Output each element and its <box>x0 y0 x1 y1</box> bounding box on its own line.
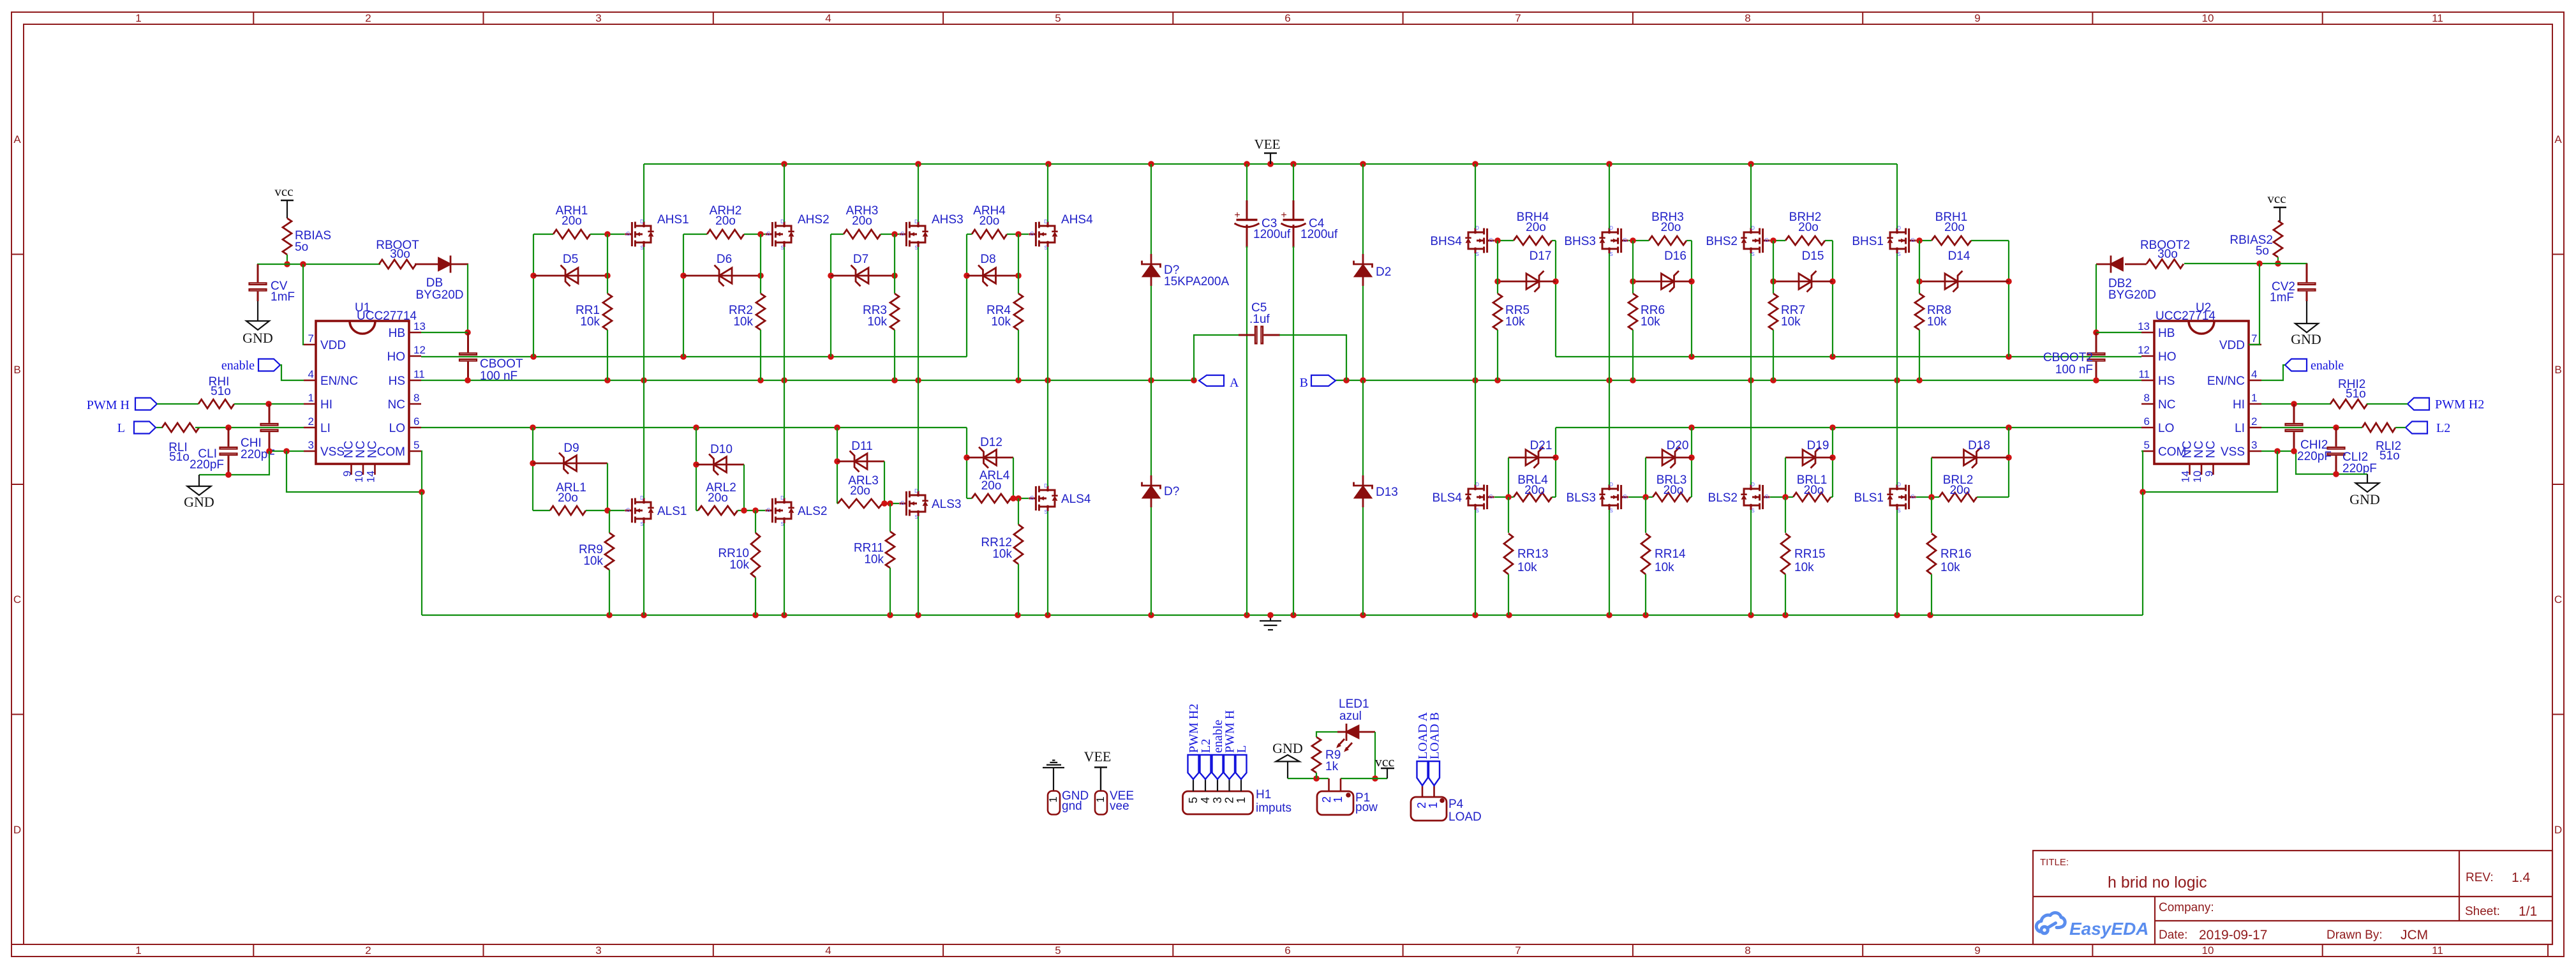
wire <box>966 234 967 357</box>
svg-text:20o: 20o <box>981 479 1002 493</box>
junction bottom rail <box>1290 612 1297 618</box>
junction D19 right <box>1829 454 1836 461</box>
U2 pin 8 NC <box>2141 392 2175 412</box>
svg-text:UCC27714: UCC27714 <box>2155 309 2215 323</box>
wire <box>258 264 287 277</box>
junction HB node <box>465 329 471 336</box>
svg-text:D20: D20 <box>1667 439 1689 452</box>
svg-text:pow: pow <box>1355 801 1378 814</box>
svg-text:LO: LO <box>2158 422 2174 435</box>
svg-text:NC: NC <box>2158 398 2175 412</box>
wire <box>683 234 684 357</box>
svg-text:D12: D12 <box>980 436 1002 449</box>
svg-text:14: 14 <box>2180 471 2192 483</box>
svg-text:10k: 10k <box>1940 561 1960 574</box>
junction COM drop <box>419 489 425 495</box>
junction D14 left <box>1916 278 1923 285</box>
diode D? (bottom TVS) <box>1142 380 1180 615</box>
resistor BRH1 20o <box>1932 211 2009 245</box>
transistor BLS1 (N-MOSFET) <box>1854 482 1916 514</box>
resistor BRL1 20o <box>1793 473 1833 502</box>
svg-text:30o: 30o <box>2157 248 2178 261</box>
H1 pin 2 port PWM H <box>1223 710 1237 803</box>
svg-text:7: 7 <box>308 332 314 345</box>
junction node B <box>1343 377 1350 383</box>
wire <box>590 234 625 235</box>
junction HS line <box>915 377 921 383</box>
net flag PWM H <box>87 398 157 413</box>
junction COM2 drop <box>2140 489 2146 495</box>
diode D19 (zener) <box>1785 439 1833 468</box>
junction <box>2275 260 2281 267</box>
junction HS2 line <box>1770 377 1776 383</box>
junction D18 right <box>2006 454 2012 461</box>
svg-text:5: 5 <box>2144 439 2150 451</box>
svg-text:CBOOT: CBOOT <box>480 357 523 371</box>
wire <box>1508 497 1509 533</box>
wire <box>607 234 608 294</box>
svg-text:51o: 51o <box>2346 387 2366 401</box>
U2 pin 10 NC <box>2191 441 2206 483</box>
wire <box>1916 240 1932 241</box>
wire RR15 to rail <box>1785 574 1786 615</box>
svg-text:LOAD B: LOAD B <box>1428 712 1442 759</box>
wire HB2 <box>2096 332 2141 333</box>
wire <box>1508 458 1509 497</box>
junction <box>604 507 611 514</box>
svg-text:7: 7 <box>1515 12 1521 24</box>
svg-text:4: 4 <box>825 12 831 24</box>
wire <box>755 510 756 533</box>
junction bottom rail <box>1148 612 1154 618</box>
ground GND below CLI2 <box>2349 474 2380 507</box>
svg-text:RR13: RR13 <box>1517 547 1549 561</box>
svg-text:S: S <box>914 245 918 251</box>
wire COM2 to rail <box>2142 492 2143 615</box>
capacitor CV 1mF <box>249 264 295 304</box>
svg-text:+: + <box>1281 210 1286 221</box>
svg-text:10k: 10k <box>867 315 887 329</box>
transistor BHS3 (N-MOSFET) <box>1564 225 1628 257</box>
junction D11 left <box>834 458 840 465</box>
wire <box>1691 241 1692 357</box>
svg-text:VSS: VSS <box>320 445 345 459</box>
svg-text:12: 12 <box>413 344 426 356</box>
junction HS line <box>641 377 647 383</box>
svg-text:G: G <box>1489 237 1493 243</box>
port LOAD A <box>1416 712 1430 786</box>
svg-text:D: D <box>2554 824 2562 836</box>
junction D20 right <box>1688 454 1695 461</box>
svg-text:L: L <box>1235 745 1249 753</box>
resistor RR7 10k <box>1769 294 1805 330</box>
junction CLI2 bottom <box>2333 471 2339 477</box>
transistor ALS1 (N-MOSFET) <box>625 495 687 527</box>
resistor RR15 10k <box>1781 533 1826 574</box>
svg-text:1.4: 1.4 <box>2512 870 2531 885</box>
wire LO2 line <box>1556 427 2141 428</box>
ground GND below CV <box>242 301 273 346</box>
wire HS2 line <box>1336 380 2141 381</box>
U2 pin 1 HI <box>2233 392 2261 412</box>
wire <box>696 510 698 511</box>
transistor ALS2 (N-MOSFET) <box>765 495 827 527</box>
svg-text:12: 12 <box>2138 344 2150 356</box>
svg-text:10: 10 <box>2191 471 2203 483</box>
svg-text:6: 6 <box>1284 944 1290 957</box>
wire R9 to LED1 <box>1316 732 1337 737</box>
svg-text:1: 1 <box>1427 802 1440 808</box>
svg-text:S: S <box>780 245 784 251</box>
resistor ARH2 20o <box>683 204 744 239</box>
svg-text:8: 8 <box>1745 944 1750 957</box>
junction HS2 line <box>1748 377 1754 383</box>
diode DB BYG20D <box>415 256 468 302</box>
svg-text:HI: HI <box>320 398 332 412</box>
wire <box>1971 240 2009 241</box>
svg-text:imputs: imputs <box>1256 801 1292 815</box>
wire <box>837 503 838 504</box>
wire <box>1475 164 1476 228</box>
transistor BLS3 (N-MOSFET) <box>1567 482 1628 514</box>
svg-text:A: A <box>2554 133 2562 145</box>
wire RR2 to HS <box>760 330 761 380</box>
svg-text:LI: LI <box>2235 422 2245 435</box>
wire <box>1896 380 1898 485</box>
svg-text:vee: vee <box>1110 800 1129 813</box>
svg-text:9: 9 <box>1974 12 1980 24</box>
svg-text:20o: 20o <box>1804 484 1824 497</box>
svg-text:G: G <box>626 231 630 237</box>
wire <box>784 164 785 222</box>
junction D8 left <box>964 272 970 279</box>
svg-text:3: 3 <box>2251 439 2257 451</box>
junction node A <box>1191 377 1197 383</box>
wire <box>1632 241 1634 294</box>
junction <box>284 261 290 267</box>
svg-text:10k: 10k <box>1655 561 1674 574</box>
svg-text:20o: 20o <box>1524 484 1545 497</box>
wire <box>918 164 919 222</box>
svg-text:1/1: 1/1 <box>2519 904 2537 919</box>
svg-text:1mF: 1mF <box>271 290 295 304</box>
svg-text:vcc: vcc <box>2267 191 2286 206</box>
transistor AHS4 (N-MOSFET) <box>1029 213 1093 251</box>
wire <box>830 234 831 357</box>
svg-text:1200uf: 1200uf <box>1253 228 1291 241</box>
wire <box>2184 264 2307 277</box>
svg-text:4: 4 <box>825 944 831 957</box>
wire to LI <box>195 427 304 428</box>
U2 pin 14 NC <box>2180 441 2194 483</box>
H1 pin 1 port L <box>1235 745 1249 803</box>
resistor RR9 10k <box>579 533 614 570</box>
wire bottom rail <box>422 614 2143 616</box>
svg-text:D5: D5 <box>563 253 578 266</box>
svg-text:9: 9 <box>1974 944 1980 957</box>
svg-text:6: 6 <box>2144 415 2150 428</box>
svg-text:enable: enable <box>2311 359 2344 373</box>
junction D17 right <box>1552 278 1559 285</box>
svg-text:HB: HB <box>389 327 405 340</box>
wire HI2 <box>2261 403 2331 405</box>
junction bottom rail <box>606 612 613 618</box>
junction D5 right <box>604 272 611 279</box>
wire <box>1475 380 1476 485</box>
U1 pin 9 NC <box>341 441 356 477</box>
svg-text:D19: D19 <box>1807 439 1829 452</box>
svg-text:10k: 10k <box>1927 315 1947 329</box>
wire <box>1047 247 1048 380</box>
wire VSS2-COM loop <box>2141 451 2277 492</box>
wire VEE rail <box>644 163 1897 165</box>
svg-text:5o: 5o <box>295 241 308 254</box>
wire <box>1977 496 2009 498</box>
resistor ARL4 20o <box>967 469 1011 503</box>
junction LO2 line <box>1829 424 1836 431</box>
net flag PWM H2 <box>2408 398 2484 412</box>
junction bottom rail <box>1472 612 1478 618</box>
wire <box>890 503 891 532</box>
wire RR1 to HS <box>607 330 608 380</box>
junction bottom rail <box>1506 612 1512 618</box>
junction HS line <box>781 377 787 383</box>
junction <box>881 500 888 507</box>
U1 pin 8 NC <box>388 392 421 412</box>
wire <box>1293 246 1294 615</box>
svg-text:AHS2: AHS2 <box>798 213 830 227</box>
svg-text:azul: azul <box>1339 710 1362 723</box>
junction LO line <box>530 424 536 431</box>
junction D5 left <box>530 272 537 279</box>
junction D6 left <box>680 272 687 279</box>
svg-text:BYG20D: BYG20D <box>2108 288 2156 302</box>
wire <box>1279 335 1346 380</box>
junction CLI top <box>225 424 232 431</box>
svg-text:P4: P4 <box>1448 798 1464 811</box>
resistor RR10 10k <box>718 533 760 577</box>
wire <box>1194 335 1240 380</box>
transistor ALS3 (N-MOSFET) <box>899 488 961 520</box>
svg-text:.1uf: .1uf <box>1249 313 1270 326</box>
svg-text:8: 8 <box>2144 392 2150 404</box>
wire enable to EN/NC <box>280 365 304 380</box>
wire VDD <box>303 264 304 345</box>
wire <box>1555 428 1556 497</box>
junction <box>1015 495 1022 502</box>
svg-text:EN/NC: EN/NC <box>2207 375 2245 388</box>
junction bottom rail <box>1782 612 1789 618</box>
svg-text:Date:: Date: <box>2159 928 2187 942</box>
svg-text:D7: D7 <box>853 253 868 266</box>
svg-text:2: 2 <box>365 944 371 957</box>
junction LO2 line <box>1688 424 1695 431</box>
junction D7 left <box>828 272 834 279</box>
capacitor CBOOT2 100 nF <box>2043 332 2105 380</box>
H1 pin 4 port L2 <box>1199 739 1213 803</box>
svg-text:TITLE:: TITLE: <box>2040 857 2069 868</box>
junction bottom rail <box>781 612 787 618</box>
wire <box>967 498 972 499</box>
svg-text:S: S <box>1044 245 1047 251</box>
svg-text:B: B <box>13 364 20 376</box>
resistor RR2 10k <box>729 294 765 330</box>
U1 pin 14 NC <box>365 441 380 483</box>
junction <box>752 507 759 514</box>
svg-text:gnd: gnd <box>1062 800 1082 813</box>
svg-text:H1: H1 <box>1256 788 1271 801</box>
svg-text:NC: NC <box>388 398 405 412</box>
U1 pin 12 HO <box>387 344 426 364</box>
junction D6 right <box>757 272 764 279</box>
svg-text:BLS2: BLS2 <box>1708 491 1738 505</box>
op-amp U2 UCC27714 body <box>2154 301 2249 464</box>
svg-text:AHS3: AHS3 <box>932 213 964 227</box>
svg-text:ALS2: ALS2 <box>798 505 827 518</box>
svg-text:11: 11 <box>2138 368 2150 380</box>
resistor RR16 10k <box>1927 533 1972 574</box>
svg-text:10: 10 <box>353 471 365 483</box>
wire COM to rail <box>421 492 422 615</box>
svg-text:5: 5 <box>1187 797 1200 803</box>
wire <box>533 234 553 235</box>
svg-text:L: L <box>117 421 125 435</box>
wire <box>643 247 644 380</box>
wire <box>1362 380 1364 475</box>
svg-text:10k: 10k <box>729 558 749 572</box>
junction D10 left <box>693 461 699 468</box>
wire <box>1690 496 1692 498</box>
junction bottom rail <box>1927 612 1933 618</box>
svg-text:1: 1 <box>1094 796 1106 802</box>
diode D18 (zener) <box>1932 439 2009 468</box>
svg-text:S: S <box>1897 251 1900 257</box>
svg-text:5: 5 <box>1055 12 1061 24</box>
svg-text:BLS4: BLS4 <box>1433 491 1463 505</box>
svg-text:RR16: RR16 <box>1940 547 1972 561</box>
svg-text:Sheet:: Sheet: <box>2465 905 2500 918</box>
wire <box>1896 510 1898 615</box>
junction D14 right <box>2006 278 2012 285</box>
svg-text:11: 11 <box>413 368 425 380</box>
diode D? 15KPA200A (top TVS) <box>1142 164 1230 380</box>
svg-text:10k: 10k <box>1505 315 1525 329</box>
wire <box>1609 380 1610 485</box>
diode D11 (zener) <box>837 440 884 472</box>
svg-text:10k: 10k <box>1517 561 1537 574</box>
transistor AHS1 (N-MOSFET) <box>625 213 689 251</box>
power flag vcc (right) <box>2267 191 2286 221</box>
wire <box>1825 240 1833 241</box>
wire <box>467 264 468 332</box>
svg-text:HI: HI <box>2233 398 2245 412</box>
junction HS2 line <box>1606 377 1612 383</box>
power flag VEE (top) <box>1254 137 1281 164</box>
svg-text:100 nF: 100 nF <box>480 369 517 383</box>
wire <box>586 510 625 511</box>
resistor RLI2 51o <box>2362 423 2401 463</box>
svg-text:9: 9 <box>2203 471 2215 477</box>
svg-text:ALS4: ALS4 <box>1061 493 1091 506</box>
junction VEE rail <box>1148 161 1154 167</box>
wire <box>1047 164 1048 222</box>
U1 pin 1 HI <box>304 392 332 412</box>
junction gate node <box>1642 494 1649 500</box>
wire <box>1362 507 1364 615</box>
U1 pin 4 EN/NC <box>304 368 358 388</box>
junction bottom rail <box>1606 612 1612 618</box>
junction <box>300 261 306 267</box>
wire <box>2096 264 2097 332</box>
wire <box>1013 458 1014 498</box>
svg-text:10k: 10k <box>864 553 884 567</box>
transistor BHS4 (N-MOSFET) <box>1430 225 1494 257</box>
svg-text:G: G <box>626 507 630 513</box>
resistor RR8 10k <box>1915 294 1951 330</box>
capacitor C5 .1uf <box>1194 301 1346 380</box>
diode D20 (zener) <box>1646 439 1692 468</box>
resistor RBIAS 5o <box>283 218 331 255</box>
svg-text:2: 2 <box>1415 802 1428 808</box>
capacitor CBOOT 100 nF <box>459 332 523 383</box>
svg-text:G: G <box>1764 494 1768 500</box>
svg-text:LED1: LED1 <box>1339 697 1369 711</box>
wire <box>1609 164 1610 228</box>
svg-text:BHS2: BHS2 <box>1706 235 1738 248</box>
junction D7 right <box>891 272 898 279</box>
junction <box>266 448 272 454</box>
wire <box>609 510 610 533</box>
svg-text:GND: GND <box>1272 740 1303 756</box>
svg-text:30o: 30o <box>390 248 410 261</box>
net flag A <box>1199 375 1239 390</box>
wire <box>1150 380 1152 475</box>
svg-text:20o: 20o <box>979 214 1000 228</box>
svg-text:G: G <box>1489 494 1493 500</box>
junction VEE rail <box>1748 161 1754 167</box>
diode D6 (zener) <box>683 253 761 287</box>
svg-text:3: 3 <box>308 439 314 451</box>
svg-text:S: S <box>1475 508 1478 514</box>
wire <box>1770 496 1793 498</box>
svg-text:A: A <box>13 133 21 145</box>
diode D7 (zener) <box>831 253 895 287</box>
svg-text:1: 1 <box>1235 797 1247 803</box>
svg-text:1: 1 <box>135 12 141 24</box>
svg-text:D11: D11 <box>851 440 872 453</box>
transistor ALS4 (N-MOSFET) <box>1029 483 1091 515</box>
junction <box>1010 495 1016 502</box>
junction VEE rail <box>1606 161 1612 167</box>
svg-text:7: 7 <box>2251 332 2257 345</box>
wire <box>1832 241 1833 357</box>
svg-text:S: S <box>640 521 643 527</box>
svg-text:B: B <box>2554 364 2561 376</box>
wire <box>1018 234 1019 294</box>
wire <box>1362 164 1364 254</box>
wire <box>1896 253 1898 380</box>
transistor BLS2 (N-MOSFET) <box>1708 482 1770 514</box>
wire <box>2008 428 2009 497</box>
resistor ARH4 20o <box>967 204 1007 239</box>
diode D2 (top TVS) <box>1354 164 1392 380</box>
wire VSS to GND <box>199 451 269 475</box>
junction gate node <box>1916 237 1923 244</box>
svg-text:S: S <box>1609 251 1612 257</box>
svg-text:Drawn By:: Drawn By: <box>2327 928 2383 942</box>
svg-text:HS: HS <box>2158 375 2175 388</box>
svg-text:6: 6 <box>1284 12 1290 24</box>
